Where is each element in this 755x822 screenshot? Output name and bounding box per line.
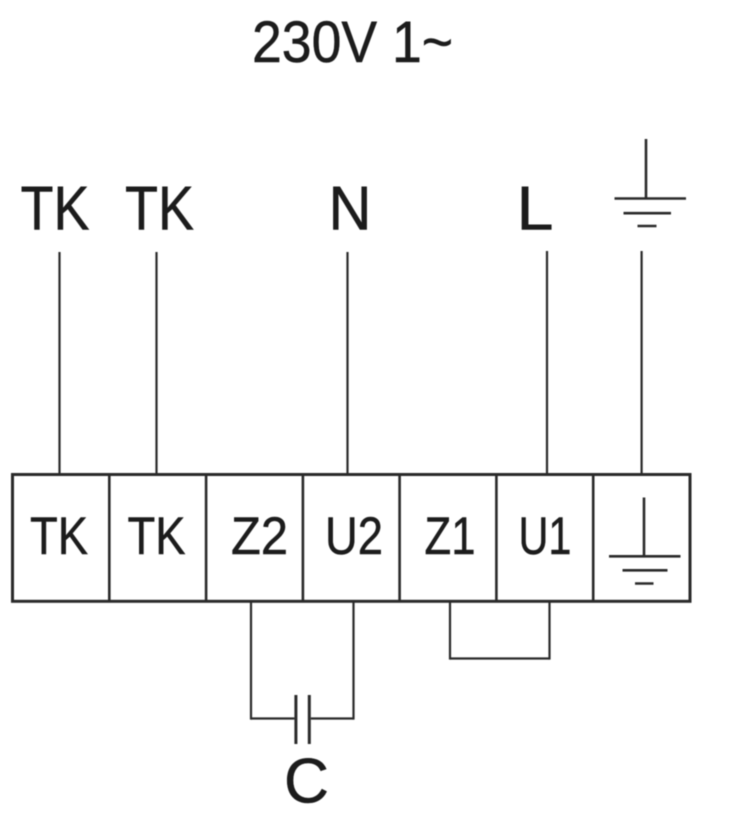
svg-text:TK: TK xyxy=(21,175,90,244)
svg-text:L: L xyxy=(517,175,554,244)
svg-text:U2: U2 xyxy=(325,507,383,566)
svg-text:Z2: Z2 xyxy=(231,507,288,566)
svg-text:C: C xyxy=(284,747,329,817)
svg-text:TK: TK xyxy=(125,175,194,244)
svg-text:N: N xyxy=(329,175,372,244)
svg-text:TK: TK xyxy=(30,507,88,566)
svg-text:Z1: Z1 xyxy=(425,507,476,566)
svg-text:U1: U1 xyxy=(519,507,572,566)
svg-text:TK: TK xyxy=(128,507,186,566)
svg-text:230V 1~: 230V 1~ xyxy=(252,10,453,75)
